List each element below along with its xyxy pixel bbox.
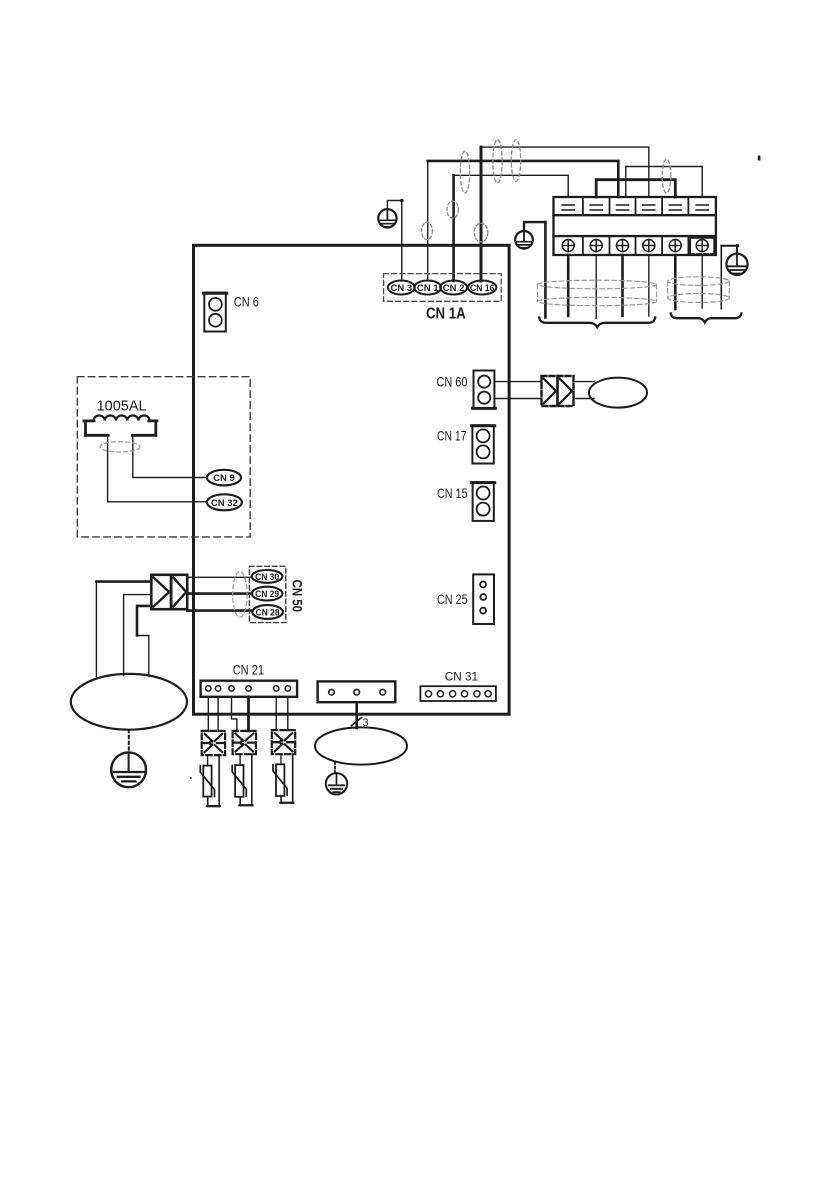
bus slash mark (3 conductors): [351, 717, 362, 725]
thermistor R2 bottom loop thick base: [239, 804, 252, 806]
thermistor R3 bottom loop: [281, 754, 293, 803]
wire P1 to CN30 (thin): [187, 576, 252, 578]
thermistor R1 bottom loop: [208, 755, 220, 806]
connector CN21 pin 4: [246, 686, 251, 691]
node junction dot at CN3 wire corner: [400, 199, 404, 203]
connector CN60 pin 1: [478, 376, 490, 388]
connector J1 pin 3: [380, 689, 386, 695]
thermistor plug TH2 divider: [234, 741, 255, 743]
wire CN1 to terminal cell 3 (drop thick): [617, 161, 620, 197]
connector CN31 pin 1: [425, 691, 431, 697]
terminal block TB1 screw 4: [643, 240, 655, 252]
svg-text:CN 60: CN 60: [436, 374, 467, 390]
connector CN25 pin 3: [480, 608, 486, 614]
connector CN21 pin 5: [274, 686, 279, 691]
ground G3 symbol: [726, 254, 747, 275]
terminal block TB1 top row cell dividers: [583, 197, 689, 215]
svg-text:CN 3: CN 3: [390, 283, 412, 294]
connector CN3 ellipse: [388, 281, 415, 295]
connector CN25 body: [473, 574, 494, 624]
thermistor plug TH3 dashed box: [272, 730, 295, 754]
wire CN21 pin5 to thermistor plug TH3: [275, 697, 277, 731]
thermistor R2 body: [235, 765, 243, 797]
ferrite core dashed ellipse pair left: [493, 140, 502, 183]
connector CN15 pin 2: [477, 503, 490, 516]
ferrite bead dashed on inductor leads: [100, 442, 140, 452]
connector CN9 ellipse: [207, 470, 241, 486]
connector CN6 thick top edge: [203, 292, 227, 295]
connector CN17 thick top edge: [471, 424, 494, 427]
thermistor R3 bottom loop thick base: [280, 802, 293, 804]
connector CN15 thick top edge: [472, 481, 495, 484]
fan motor ellipse (right of CN60): [589, 378, 647, 408]
PCB main board outline: [194, 245, 510, 714]
svg-text:3: 3: [363, 717, 369, 729]
connector CN2 ellipse: [440, 281, 467, 295]
connector CN60 pin 2: [478, 392, 490, 404]
connector CN1 ellipse: [414, 281, 441, 295]
reactor assembly dashed box: [77, 377, 250, 537]
terminal block TB1 outer frame: [554, 197, 716, 255]
wire CN2 to terminal cell 1 (vertical thick): [452, 175, 455, 281]
thermistor plug TH3 divider: [273, 741, 294, 743]
connector P2 right chevron: [560, 379, 572, 404]
inductor L1 bottom right foot: [132, 434, 156, 437]
ground G2 wire (left of terminal block): [524, 222, 545, 231]
wire CN60 pin1 to fan plug P2: [494, 381, 541, 383]
svg-text:CN 17: CN 17: [437, 427, 467, 443]
svg-text:CN 1A: CN 1A: [426, 306, 466, 323]
compressor motor ellipse: [71, 674, 187, 730]
thermistor R2 lead from plug: [239, 754, 241, 765]
ferrite bead dashed on CN2 wire: [447, 201, 458, 218]
wire CN21 pin1 to thermistor plug TH1: [207, 697, 209, 732]
terminal block TB1 screw row top line: [554, 235, 716, 237]
wire J1 to fan motor ellipse: [355, 702, 358, 728]
fan motor ellipse (bottom middle): [315, 727, 407, 764]
terminal block TB1 screw 3: [617, 240, 629, 252]
inductor L1 coil (1005AL): [94, 416, 150, 421]
wire terminal screw 6 down: [701, 255, 703, 308]
ground G2 symbol: [515, 231, 533, 249]
ferrite bead dashed on CN16 wire: [474, 223, 488, 242]
wire P1 to CN29 (thick): [187, 592, 252, 595]
svg-text:CN 21: CN 21: [233, 662, 264, 677]
connector CN31 pin 5: [474, 691, 480, 697]
ground G5 (fan motor earth): [326, 773, 347, 794]
thermistor plug TH2 dashed box: [233, 731, 256, 754]
wire P1 phase U to compressor: [96, 580, 151, 583]
wire P1 phase W to compressor (thick part): [137, 606, 151, 636]
connector CN25 pin 2: [480, 594, 486, 600]
connector CN60 body: [474, 371, 495, 409]
ferrite core dashed ellipse on bridge wire: [662, 159, 671, 193]
wire CN21 pin3 to thermistor plug TH2 (with jog): [232, 697, 237, 732]
ferrite bead dashed on CN50 wires: [233, 572, 247, 618]
connector CN32 ellipse: [207, 494, 242, 510]
inductor L1 right shoulder: [149, 419, 157, 422]
connector P2 left chevron: [544, 379, 556, 404]
connector CN31 pin 3: [450, 691, 456, 697]
connector pair symbol P1 right chevron: [173, 578, 186, 607]
wire CN16 to terminal cell 4 (horizontal thin): [481, 147, 649, 197]
connector CN30 ellipse: [252, 570, 283, 583]
connector pair symbol P2 right half (dashed): [558, 376, 574, 406]
connector CN15 body: [473, 482, 494, 521]
thermistor plug TH2 arrows: [236, 734, 254, 752]
wire CN3 to ground G1: [387, 201, 401, 282]
wire CN60 pin2 to fan plug P2: [494, 398, 541, 400]
svg-text:CN 29: CN 29: [255, 589, 279, 600]
thermistor R3 body: [276, 764, 284, 796]
node dot at G3 wire corner: [736, 244, 740, 248]
thermistor plug TH1 arrows: [205, 734, 223, 752]
terminal block TB1 cell 1 contact marks: [562, 205, 574, 210]
connector CN6 body: [204, 293, 226, 332]
connector CN6 pin 2: [209, 314, 222, 327]
svg-text:CN 9: CN 9: [213, 473, 235, 484]
connector CN17 body: [472, 425, 493, 463]
connector CN31 body: [420, 686, 496, 701]
terminal block TB1 screw row cell dividers: [583, 236, 689, 255]
wire phase W jog to compressor: [137, 636, 149, 677]
wire CN21 pin4 to thermistor plug TH2 (thick): [247, 697, 250, 731]
dotted earth lead from fan motor: [334, 762, 336, 772]
terminal block TB1 cell 6 contact marks: [696, 205, 708, 210]
terminal block TB1 cell 2 contact marks: [590, 205, 602, 210]
connector CN21 pin 3: [229, 686, 234, 691]
wire CN1 to terminal cell 3 (vertical thin): [427, 161, 429, 281]
wire G3 drop to cable group: [720, 246, 722, 309]
connector CN17 pin 2: [477, 445, 490, 458]
svg-text:CN 2: CN 2: [443, 283, 465, 294]
wire CN1 to terminal cell 3 (horizontal thick): [428, 160, 619, 163]
wire terminal screw 4 down: [648, 255, 650, 316]
terminal block TB1 cell 3 contact marks: [617, 205, 629, 210]
connector pair symbol P1 left chevron: [154, 578, 170, 607]
connector group CN1A dashed box: [384, 274, 502, 302]
wire terminal screw 2 down: [595, 255, 597, 318]
wire P1 phase V to compressor: [124, 595, 152, 676]
wire terminal cell 3 to cell 6 link: [626, 167, 702, 198]
thermistor R3 lead from plug: [280, 754, 282, 764]
svg-text:CN 50: CN 50: [290, 580, 305, 613]
thermistor R1 lead from plug: [207, 755, 209, 766]
connector CN21 body: [201, 681, 298, 697]
terminal block TB1 screw 2: [590, 240, 602, 252]
connector pair symbol P1 left half (compressor plug): [151, 575, 171, 609]
svg-text:CN 28: CN 28: [256, 608, 280, 619]
svg-text:CN 30: CN 30: [255, 572, 279, 583]
thermistor R3 diagonal stroke: [273, 765, 287, 796]
stray tick mark top right: [758, 156, 761, 161]
ferrite cylinder 2 dashed (earth cable core): [668, 277, 730, 303]
connector pair symbol P1 right half: [171, 575, 187, 609]
svg-text:1005AL: 1005AL: [97, 397, 147, 414]
thermistor R2 diagonal stroke: [232, 766, 246, 797]
connector CN6 pin 1: [209, 298, 222, 311]
thermistor R1 bottom loop thick base: [207, 805, 220, 807]
connector CN28 ellipse: [252, 605, 283, 619]
inductor L1 left shoulder: [84, 419, 94, 422]
terminal block TB1 screw 5: [669, 240, 681, 252]
svg-text:CN 15: CN 15: [437, 485, 468, 501]
connector CN31 pin 2: [437, 691, 443, 697]
ground G1 (protective earth, top left of CN1A): [378, 209, 396, 227]
terminal block TB1 cell 6 emphasis frame: [690, 237, 715, 254]
terminal block TB1 top row bottom line: [554, 214, 716, 216]
inductor L1 bottom left foot: [86, 434, 109, 437]
wire CN16 to terminal cell 4 (vertical thick): [480, 147, 483, 281]
connector CN31 pin 4: [461, 691, 467, 697]
svg-text:CN 6: CN 6: [234, 294, 259, 310]
connector CN21 pin 2: [215, 686, 220, 691]
wire terminal screw 1 down: [567, 255, 570, 316]
wire phase U drop: [95, 582, 97, 677]
connector CN29 ellipse: [252, 587, 283, 601]
connector CN60 thick bottom edge: [473, 407, 496, 410]
connector bar J1 (3-pin, bottom middle): [318, 681, 396, 702]
terminal block TB1 screw 1: [562, 240, 574, 252]
svg-text:CN 31: CN 31: [445, 670, 479, 684]
thermistor plug TH1 dashed box: [202, 731, 225, 755]
connector CN31 pin 6: [485, 691, 491, 697]
connector pair symbol P2 left half (dashed): [542, 376, 558, 406]
inductor L1 right leg: [154, 421, 157, 435]
connector J1 pin 1: [329, 689, 335, 695]
stray dot left of thermistors: [190, 777, 192, 779]
wire inductor right terminal to CN9: [133, 435, 207, 477]
terminal block TB1 cell 6 emphasis dashed bottom: [690, 253, 715, 255]
wire inductor left terminal to CN32: [108, 435, 207, 502]
wire P2 to fan motor (lower): [574, 398, 595, 400]
ferrite core dashed ellipse pair right: [511, 140, 520, 182]
wire P2 to fan motor (upper): [574, 381, 595, 383]
thermistor plug TH3 arrows: [275, 733, 293, 751]
connector CN15 pin 1: [477, 487, 490, 500]
brace under earth wires group 2: [671, 313, 742, 322]
connector CN16 ellipse: [468, 281, 496, 295]
connector group CN50 dashed box: [249, 566, 285, 622]
ferrite bead dashed on CN1 wire: [422, 222, 433, 239]
wire CN21 pin6 to thermistor plug TH3: [287, 697, 289, 731]
wire G2 drop to cable group: [544, 222, 547, 317]
ground G4 (compressor earth): [111, 752, 146, 787]
thermistor plug TH1 divider: [203, 742, 224, 744]
wire terminal screw 3 down: [621, 255, 624, 316]
svg-text:CN 32: CN 32: [211, 498, 238, 509]
dotted earth lead from compressor: [128, 730, 130, 752]
svg-text:CN 16: CN 16: [470, 283, 495, 294]
connector CN21 pin 1: [206, 686, 211, 691]
wire bridge terminal cell 2 to cell 5: [596, 180, 675, 197]
connector J1 pin 2: [354, 689, 360, 695]
ground G3 wire (right of terminal block): [721, 246, 737, 254]
wire terminal screw 5 down: [674, 255, 677, 309]
brace under power wires group 1: [539, 318, 655, 328]
wire P1 to CN28 (thick): [187, 609, 252, 612]
thermistor R1 body: [203, 766, 211, 797]
connector CN21 pin 6: [285, 686, 290, 691]
inductor L1 left leg: [84, 421, 87, 435]
terminal block TB1 screw 6: [696, 240, 708, 252]
ferrite core dashed ellipse on CN2 line: [460, 151, 469, 193]
thermistor R1 diagonal stroke: [200, 766, 214, 797]
wire CN21 pin2 to thermistor plug TH1: [217, 697, 219, 732]
ferrite cylinder 1 dashed (power cable core): [538, 280, 657, 305]
terminal block TB1 cell 4 contact marks: [643, 205, 655, 210]
connector CN17 pin 1: [477, 429, 490, 442]
terminal block TB1 cell 5 contact marks: [669, 205, 681, 210]
svg-text:CN 25: CN 25: [437, 591, 468, 607]
connector CN25 pin 1: [480, 582, 486, 588]
wire CN2 to terminal cell 1 (horizontal thin): [454, 175, 569, 197]
svg-text:CN 1: CN 1: [417, 283, 439, 294]
thermistor R2 bottom loop: [240, 754, 252, 805]
